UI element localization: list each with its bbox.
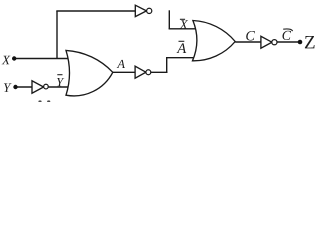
stray text fragment bottom left bbox=[38, 100, 41, 102]
inverter U3 bubble bbox=[146, 70, 151, 75]
wire X input horizontal bbox=[14, 58, 68, 60]
wire A from G1 output to inverter U3 bbox=[113, 71, 135, 73]
wire Y input to inverter U2 bbox=[16, 86, 33, 88]
wire Ybar to OR gate G1 bbox=[48, 86, 68, 88]
stray text fragment bottom left 2 bbox=[47, 100, 50, 102]
inverter U2 triangle (Y to Ybar) bbox=[32, 81, 44, 93]
label X (input) bbox=[2, 56, 11, 65]
label Z (output) bbox=[305, 36, 315, 48]
wire X branch vertical bbox=[56, 11, 58, 59]
wire top rail to inverter U1 bbox=[56, 10, 135, 12]
label Ybar bbox=[57, 78, 64, 86]
label A bbox=[117, 60, 125, 68]
label Y (input) bbox=[4, 83, 12, 92]
junction dot at X input bbox=[12, 56, 16, 60]
label Cbar bbox=[282, 31, 291, 40]
inverter U1 triangle (X to Xbar, top) bbox=[135, 5, 146, 16]
label C bbox=[246, 31, 255, 41]
inverter U2 bubble bbox=[44, 84, 49, 89]
wire Xbar vertical drop bbox=[168, 10, 170, 29]
inverter U4 bubble bbox=[272, 40, 277, 45]
wire Abar vertical riser bbox=[166, 58, 168, 73]
wire Abar into OR gate G2 bbox=[166, 57, 194, 59]
junction dot at Y input bbox=[13, 85, 17, 89]
wire Xbar into OR gate G2 bbox=[169, 28, 196, 30]
or-gate G2 (Xbar OR Abar = C) bbox=[193, 21, 236, 61]
inverter U3 triangle (A to Abar) bbox=[135, 66, 146, 78]
or-gate G1 (X OR Ybar = A) bbox=[66, 50, 113, 96]
wire Abar horizontal after U3 bbox=[151, 71, 168, 73]
label Xbar bbox=[179, 20, 188, 29]
label Abar bbox=[177, 43, 187, 53]
wire Cbar to output Z bbox=[277, 41, 300, 43]
junction dot at Z output bbox=[298, 40, 303, 45]
inverter U4 triangle (C to Cbar) bbox=[261, 36, 272, 48]
wire C from G2 output to inverter U4 bbox=[235, 41, 261, 43]
inverter U1 bubble bbox=[147, 8, 152, 13]
